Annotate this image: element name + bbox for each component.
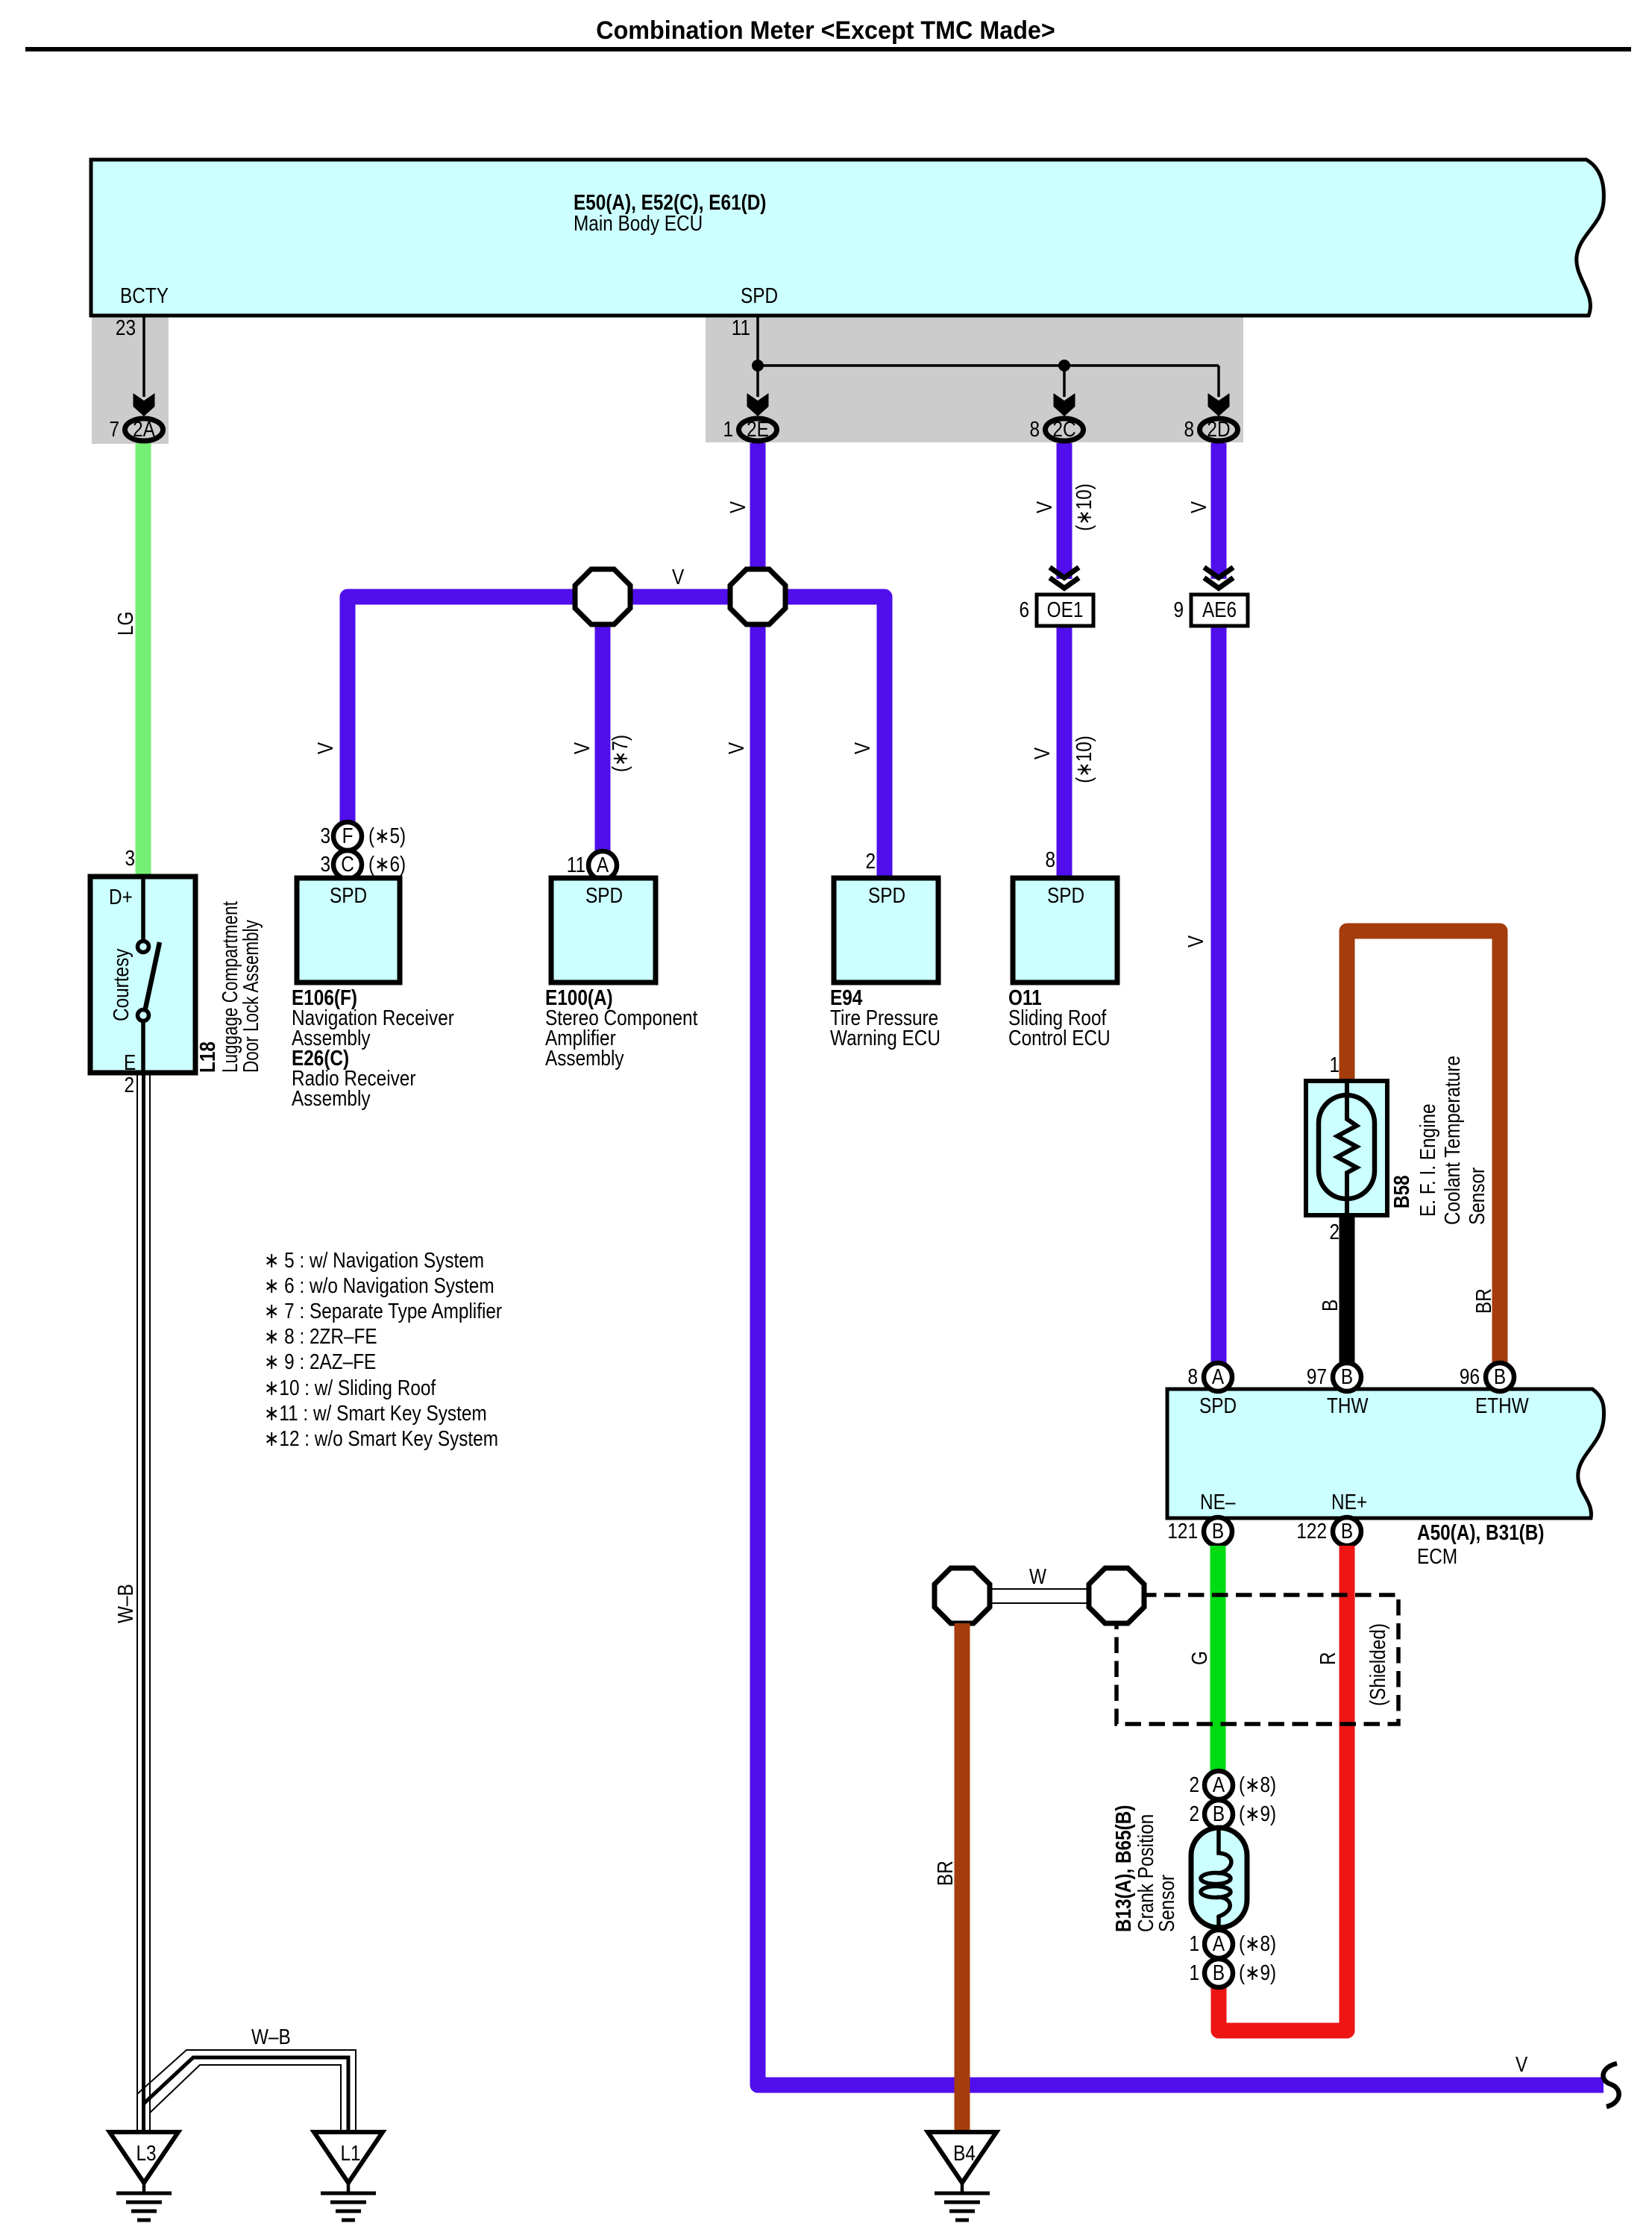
svg-text:Luggage Compartment: Luggage Compartment: [219, 900, 242, 1073]
wire BR from B58 pin1 to ECM ETHW: [1347, 931, 1500, 1376]
svg-text:NE+: NE+: [1331, 1490, 1367, 1514]
switch contact circle lower: [138, 1010, 149, 1021]
svg-text:V: V: [724, 742, 748, 754]
svg-text:B4: B4: [953, 2141, 976, 2165]
svg-text:Sensor: Sensor: [1155, 1875, 1178, 1932]
svg-text:B13(A), B65(B): B13(A), B65(B): [1111, 1805, 1135, 1932]
junction dot at 2E column: [752, 360, 764, 372]
svg-text:1: 1: [1189, 1960, 1199, 1984]
arrow into 2E: [747, 393, 769, 416]
svg-text:LG: LG: [113, 612, 137, 636]
svg-text:A: A: [1212, 1364, 1224, 1388]
splice octagon on E100 branch: [575, 569, 630, 624]
svg-text:2E: 2E: [747, 417, 769, 441]
ground B4: [928, 2132, 996, 2220]
ECM pin circle B (THW): [1333, 1363, 1361, 1391]
svg-text:Assembly: Assembly: [545, 1046, 624, 1070]
svg-text:2D: 2D: [1207, 417, 1230, 441]
svg-text:W–B: W–B: [113, 1584, 137, 1623]
svg-text:ECM: ECM: [1417, 1544, 1457, 1568]
svg-text:11: 11: [567, 853, 585, 877]
title rule: [25, 47, 1631, 51]
wire V main: 2E down, corner, to right edge: [758, 443, 1604, 2085]
svg-text:NE–: NE–: [1200, 1490, 1235, 1514]
svg-text:SPD: SPD: [741, 283, 778, 307]
svg-text:L1: L1: [340, 2141, 360, 2165]
svg-text:Combination Meter <Except TMC: Combination Meter <Except TMC Made>: [596, 16, 1055, 45]
svg-text:1: 1: [723, 417, 733, 441]
svg-text:3: 3: [320, 824, 330, 847]
svg-text:V: V: [1030, 747, 1054, 759]
connector oval 2C: [1046, 417, 1084, 441]
svg-text:Warning ECU: Warning ECU: [830, 1026, 940, 1050]
svg-text:(∗5): (∗5): [368, 824, 406, 847]
svg-text:V: V: [1032, 501, 1056, 513]
svg-text:∗ 9 : 2AZ–FE: ∗ 9 : 2AZ–FE: [264, 1350, 376, 1373]
svg-text:2: 2: [124, 1073, 134, 1097]
svg-text:V: V: [570, 742, 594, 754]
wire W-B vertical outline right: [149, 1073, 151, 2132]
svg-text:8: 8: [1045, 847, 1055, 871]
gray connector shade under SPD: [706, 315, 1243, 442]
svg-text:F: F: [342, 824, 354, 847]
wire W-B branch outline upper: [137, 2050, 356, 2132]
svg-text:Main Body ECU: Main Body ECU: [574, 211, 703, 235]
arrow into 2A: [134, 393, 155, 416]
svg-text:97: 97: [1307, 1364, 1327, 1388]
inline connector chevrons OE1: [1050, 568, 1079, 589]
wire V branch to E100: [595, 597, 611, 867]
svg-text:∗ 7 : Separate Type Amplifier: ∗ 7 : Separate Type Amplifier: [264, 1299, 502, 1323]
ground L3: [110, 2132, 178, 2220]
wire break squiggle: [1604, 2063, 1619, 2107]
switch wire upper: [141, 879, 145, 941]
svg-text:W: W: [1029, 1564, 1047, 1588]
svg-text:Coolant Temperature: Coolant Temperature: [1440, 1056, 1464, 1225]
wire R from ECM NE+ to crank sensor: [1219, 1546, 1347, 2031]
svg-text:V: V: [1184, 935, 1207, 947]
svg-text:A50(A), B31(B): A50(A), B31(B): [1417, 1520, 1544, 1544]
svg-text:∗12 : w/o Smart Key System: ∗12 : w/o Smart Key System: [264, 1426, 498, 1450]
crank sensor coil element: [1201, 1830, 1231, 1925]
svg-text:B: B: [1213, 1802, 1225, 1825]
wire SPD distribution horizontal: [758, 364, 1219, 367]
B58 coolant temp sensor box: [1306, 1081, 1387, 1215]
O11 SPD box: [1013, 878, 1117, 982]
svg-text:11: 11: [732, 316, 750, 339]
connector oval 2A: [125, 417, 163, 441]
splice octagon on main V wire: [730, 569, 785, 624]
svg-text:∗11 : w/ Smart Key System: ∗11 : w/ Smart Key System: [264, 1401, 487, 1425]
Main Body ECU box E50/E52/E61: [91, 160, 1604, 316]
svg-text:Sensor: Sensor: [1465, 1167, 1489, 1225]
svg-text:SPD: SPD: [1047, 883, 1084, 907]
svg-text:B: B: [1341, 1519, 1353, 1543]
ECM pin circle B (NE+): [1333, 1517, 1361, 1546]
B58 sensor capsule: [1319, 1095, 1375, 1199]
B58 resistor element: [1337, 1083, 1357, 1213]
svg-text:L3: L3: [136, 2141, 156, 2165]
label O11 group: [1008, 985, 1111, 1050]
switch contact circle upper: [138, 941, 149, 953]
ECM pin circle B (ETHW): [1486, 1363, 1514, 1391]
svg-text:A: A: [597, 853, 609, 877]
ECM pin circle A (SPD): [1204, 1363, 1232, 1391]
svg-text:(∗7): (∗7): [608, 735, 632, 772]
wire W-B branch stripe: [144, 2057, 349, 2132]
E94 SPD box: [834, 878, 938, 982]
svg-text:122: 122: [1296, 1519, 1327, 1543]
svg-text:∗ 8 : 2ZR–FE: ∗ 8 : 2ZR–FE: [264, 1324, 377, 1348]
svg-text:V: V: [1187, 501, 1210, 513]
svg-text:2: 2: [865, 849, 876, 873]
svg-text:7: 7: [109, 417, 119, 441]
label E100(A) group: [545, 985, 698, 1070]
svg-text:96: 96: [1460, 1364, 1480, 1388]
wire G from ECM NE- to crank sensor: [1210, 1546, 1226, 1772]
svg-text:8: 8: [1187, 1364, 1198, 1388]
wire V from OE1 to O11: [1057, 626, 1072, 880]
crank sensor connector circle A upper: [1205, 1771, 1233, 1799]
svg-text:2: 2: [1189, 1772, 1199, 1796]
shield dashed box: [1116, 1595, 1398, 1724]
wire branch to 2D: [1217, 366, 1220, 397]
crank sensor connector circle B lower: [1205, 1959, 1233, 1987]
L18 luggage door lock box: [90, 877, 195, 1073]
svg-text:(∗8): (∗8): [1239, 1931, 1276, 1955]
svg-text:(∗9): (∗9): [1239, 1960, 1276, 1984]
wire W-B vertical from L18 (outline left): [136, 1073, 138, 2132]
svg-text:A: A: [1213, 1931, 1225, 1955]
switch wire lower: [141, 1021, 145, 1073]
svg-text:9: 9: [1173, 598, 1184, 621]
svg-text:B: B: [1318, 1300, 1342, 1311]
label E106(F) group: [292, 985, 454, 1110]
ground L1: [314, 2132, 383, 2220]
svg-text:1: 1: [1329, 1053, 1339, 1076]
inline connector chevrons AE6: [1205, 568, 1234, 589]
wire W between splices: [989, 1589, 1090, 1603]
wire V from AE6 to ECM SPD: [1211, 626, 1227, 1376]
wire V horizontal splice run with ends to E106 and E94: [348, 597, 885, 880]
svg-text:SPD: SPD: [1199, 1394, 1237, 1417]
E106/E26 SPD box: [297, 878, 400, 982]
svg-text:6: 6: [1019, 598, 1029, 621]
label E94 group: [830, 985, 940, 1050]
svg-text:8: 8: [1029, 417, 1040, 441]
arrow into 2C: [1054, 393, 1075, 416]
svg-text:(∗6): (∗6): [368, 852, 406, 876]
connector circle C: [333, 850, 362, 879]
svg-text:BR: BR: [1472, 1288, 1495, 1314]
svg-text:V: V: [726, 501, 750, 513]
switch blade: [144, 942, 160, 1015]
svg-text:E: E: [124, 1050, 136, 1074]
svg-text:3: 3: [125, 846, 135, 870]
connector oval 2E: [739, 417, 777, 441]
splice octagon right (shield): [1089, 1568, 1144, 1623]
splice octagon left (to B4): [935, 1568, 990, 1623]
svg-text:V: V: [313, 742, 337, 754]
E100 SPD box: [551, 878, 656, 982]
svg-text:A: A: [1213, 1772, 1225, 1796]
svg-text:E. F. I. Engine: E. F. I. Engine: [1416, 1103, 1439, 1217]
svg-text:G: G: [1187, 1651, 1211, 1665]
svg-text:D+: D+: [109, 885, 133, 909]
svg-text:R: R: [1316, 1652, 1339, 1665]
gray connector shade under BCTY: [92, 315, 169, 444]
svg-text:2: 2: [1189, 1802, 1199, 1825]
svg-text:C: C: [341, 852, 354, 876]
svg-text:3: 3: [320, 852, 330, 876]
svg-text:(∗10): (∗10): [1072, 483, 1096, 531]
svg-text:Assembly: Assembly: [292, 1086, 371, 1110]
svg-text:AE6: AE6: [1202, 598, 1237, 621]
svg-text:2: 2: [1329, 1220, 1339, 1244]
svg-text:(∗9): (∗9): [1239, 1802, 1276, 1825]
svg-text:V: V: [850, 742, 874, 754]
svg-text:23: 23: [116, 316, 136, 339]
arrow into 2D: [1208, 393, 1230, 416]
svg-text:Control ECU: Control ECU: [1008, 1026, 1111, 1050]
inline connector box OE1: [1037, 595, 1093, 626]
svg-text:2C: 2C: [1052, 417, 1075, 441]
wire B from B58 pin2 to ECM THW: [1339, 1214, 1355, 1376]
svg-text:∗ 6 : w/o Navigation System: ∗ 6 : w/o Navigation System: [264, 1273, 494, 1297]
connector oval 2D: [1200, 417, 1238, 441]
svg-text:1: 1: [1189, 1931, 1199, 1955]
svg-text:(∗8): (∗8): [1239, 1772, 1276, 1796]
svg-text:THW: THW: [1327, 1394, 1369, 1417]
svg-text:OE1: OE1: [1047, 598, 1084, 621]
svg-text:V: V: [672, 565, 684, 589]
wire BR from splice to ground B4: [955, 1623, 970, 2132]
svg-text:BCTY: BCTY: [120, 283, 169, 307]
svg-text:Door Lock Assembly: Door Lock Assembly: [239, 920, 263, 1073]
svg-text:B: B: [1341, 1364, 1353, 1388]
svg-text:(∗10): (∗10): [1072, 736, 1096, 783]
wire LG from 2A to L18: [136, 443, 151, 877]
svg-text:SPD: SPD: [585, 883, 623, 907]
junction dot at 2C column: [1058, 360, 1070, 372]
svg-text:(Shielded): (Shielded): [1366, 1623, 1389, 1706]
inline connector box AE6: [1191, 595, 1248, 626]
svg-text:121: 121: [1167, 1519, 1198, 1543]
crank sensor connector circle B upper: [1205, 1800, 1233, 1828]
wire SPD pin 11: [756, 316, 759, 397]
wire branch to 2C: [1063, 366, 1066, 397]
wire W-B branch outline lower: [150, 2065, 341, 2132]
svg-text:BR: BR: [933, 1861, 957, 1886]
svg-text:∗10 : w/ Sliding Roof: ∗10 : w/ Sliding Roof: [264, 1376, 436, 1399]
crank sensor connector circle A lower: [1205, 1930, 1233, 1958]
svg-text:B: B: [1494, 1364, 1506, 1388]
wire BCTY pin 23: [142, 316, 145, 397]
connector circle F: [333, 822, 362, 850]
wire W-B vertical stripe: [142, 1073, 145, 2132]
ECM pin circle B (NE-): [1204, 1517, 1232, 1546]
wire V from 2C to OE1: [1057, 443, 1072, 579]
svg-text:B: B: [1213, 1960, 1225, 1984]
notes list: [264, 1248, 502, 1450]
svg-text:L18: L18: [195, 1041, 219, 1073]
svg-text:V: V: [1516, 2052, 1527, 2076]
crank position sensor capsule B13/B65: [1191, 1828, 1247, 1928]
svg-text:2A: 2A: [133, 417, 155, 441]
svg-text:Courtesy: Courtesy: [109, 948, 133, 1021]
svg-text:W–B: W–B: [251, 2025, 291, 2049]
wire V from 2D to AE6: [1211, 443, 1227, 579]
svg-text:8: 8: [1184, 417, 1194, 441]
svg-text:SPD: SPD: [868, 883, 905, 907]
svg-text:B: B: [1212, 1519, 1224, 1543]
svg-text:ETHW: ETHW: [1475, 1394, 1529, 1417]
svg-text:SPD: SPD: [330, 883, 367, 907]
ECM box A50/B31: [1167, 1389, 1604, 1518]
svg-text:B58: B58: [1389, 1175, 1413, 1209]
connector circle A (E100): [588, 851, 617, 880]
svg-text:∗ 5 : w/ Navigation System: ∗ 5 : w/ Navigation System: [264, 1248, 484, 1272]
